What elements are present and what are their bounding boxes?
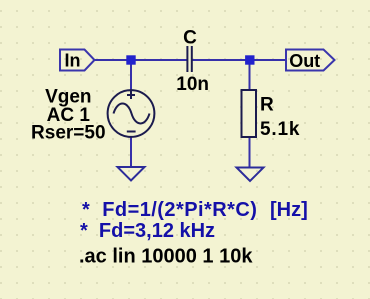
svg-text:5.1k: 5.1k [260,119,300,140]
svg-text:.ac lin 10000 1 10k: .ac lin 10000 1 10k [79,246,253,268]
svg-text:* Fd=1/(2*Pi*R*C): * Fd=1/(2*Pi*R*C) [82,199,257,221]
svg-text:10n: 10n [176,74,209,95]
svg-text:C: C [183,27,197,48]
svg-text:R: R [260,94,274,115]
svg-text:Out: Out [289,51,320,71]
svg-text:In: In [65,50,81,70]
svg-text:[Hz]: [Hz] [270,199,308,221]
svg-text:* Fd=3,12 kHz: * Fd=3,12 kHz [80,220,215,242]
svg-text:Rser=50: Rser=50 [31,122,105,143]
